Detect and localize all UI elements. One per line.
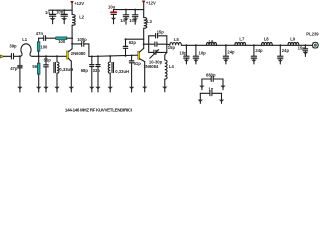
svg-text:1n: 1n: [45, 10, 50, 15]
node B: [38, 55, 40, 57]
svg-text:100: 100: [40, 44, 48, 49]
capacitor 10p second: [193, 45, 206, 59]
wire 100p down to interstage: [84, 44, 89, 57]
ground under 10p first: [184, 60, 189, 62]
choke L3: [144, 18, 153, 45]
ground under 10u: [111, 18, 116, 20]
inductor L1: [20, 37, 32, 56]
node M: [225, 44, 227, 46]
capacitor 10u electrolytic: [108, 4, 116, 17]
resistor 100 (horizontal, feedback): [56, 37, 67, 44]
node P: [304, 44, 306, 46]
node I: [131, 55, 133, 57]
ground right at 1n: [219, 100, 224, 102]
supply rail 1: [49, 9, 72, 11]
capacitor 47n: [36, 31, 46, 40]
svg-text:100: 100: [58, 39, 66, 44]
svg-text:L1: L1: [22, 37, 28, 42]
wire 39p to node A: [14, 55, 21, 57]
capacitor 15p top branch: [149, 29, 167, 38]
transistor Q1 2N6080: [67, 49, 87, 87]
svg-text:+12V: +12V: [146, 1, 156, 6]
node E: [91, 55, 93, 57]
node 62p tee: [125, 38, 127, 40]
svg-text:L5: L5: [174, 37, 180, 42]
ground under R56: [36, 87, 41, 89]
inductor L6: [207, 39, 217, 45]
svg-text:15p: 15p: [298, 46, 306, 51]
capacitor 24p first: [223, 45, 235, 59]
inductor L9: [288, 37, 299, 46]
choke L2: [72, 14, 85, 49]
input connector arrow: [0, 55, 4, 58]
ground under Q2 emitter: [142, 87, 147, 89]
ground under 10p second: [193, 60, 198, 62]
ground under 0.33uH interstage: [108, 87, 113, 89]
inductor 0.33uH (slug tuned, interstage): [108, 56, 129, 87]
transistor Q2 2N6084: [138, 44, 159, 86]
ground under Q1 emitter: [69, 87, 74, 89]
svg-text:10p: 10p: [199, 51, 207, 56]
svg-text:24p: 24p: [255, 48, 263, 53]
wire collector to 100p: [72, 43, 82, 45]
svg-text:PL239: PL239: [306, 31, 319, 36]
svg-text:56p: 56p: [44, 57, 52, 62]
svg-text:47n: 47n: [36, 31, 44, 36]
node J: [143, 43, 145, 45]
inductor L7: [235, 36, 246, 45]
svg-text:47p: 47p: [10, 66, 18, 71]
svg-text:L4: L4: [169, 64, 175, 69]
ground under 15p output: [303, 52, 308, 54]
capacitor 10n (rail 2): [129, 9, 138, 24]
svg-text:10n: 10n: [56, 10, 64, 15]
ground under 0.33uH input: [54, 87, 59, 89]
capacitor 51p: [129, 56, 141, 87]
ground left at 1n: [198, 100, 203, 102]
capacitor 1n (rail 2): [120, 9, 129, 23]
ground under 24p first: [223, 60, 228, 62]
connector PL239: [306, 31, 319, 48]
wire input to C 39p: [4, 55, 11, 57]
capacitor 39p: [9, 44, 17, 59]
svg-text:144-146 MHZ RF KUVVETLENDIRICI: 144-146 MHZ RF KUVVETLENDIRICI: [65, 108, 132, 113]
ground under 1n rail1: [50, 18, 56, 20]
svg-text:100p: 100p: [77, 37, 87, 42]
capacitor 10p first: [180, 45, 190, 59]
trimmer capacitor 10-30p: [149, 49, 167, 64]
capacitor 24p third: [278, 45, 290, 59]
capacitor 56p: [44, 56, 52, 87]
node collector feedback: [71, 37, 73, 39]
svg-text:680p: 680p: [206, 73, 216, 78]
node collector coupling: [71, 43, 73, 45]
capacitor 24p second: [251, 45, 263, 59]
ground under 51p: [129, 87, 134, 89]
capacitor 15p middle branch: [149, 42, 176, 50]
+12V supply 1: [71, 1, 85, 15]
capacitor 33p: [93, 56, 101, 87]
svg-text:L6: L6: [209, 39, 215, 44]
svg-text:15p: 15p: [157, 29, 165, 34]
node F: [97, 55, 99, 57]
svg-text:+12V: +12V: [74, 1, 84, 6]
svg-text:2N6084: 2N6084: [144, 64, 159, 69]
matching box right bar: [166, 36, 168, 53]
supply rail 2: [114, 9, 144, 11]
wire R100 to collector line: [67, 37, 72, 39]
filter wire: [181, 44, 312, 46]
capacitor 62p: [123, 39, 136, 56]
svg-text:L7: L7: [239, 36, 245, 41]
svg-text:L2: L2: [79, 14, 85, 19]
svg-text:15p: 15p: [168, 45, 176, 50]
node H: [125, 55, 127, 57]
ground under 1n rail2: [123, 18, 128, 20]
capacitor 100p: [77, 37, 87, 46]
svg-text:L8: L8: [264, 37, 270, 42]
svg-text:10p: 10p: [180, 51, 188, 56]
interstage wire: [89, 55, 138, 56]
node G: [109, 55, 111, 57]
capacitor 10n (rail 1): [56, 9, 67, 18]
capacitor 1n (rail 1): [45, 10, 56, 18]
svg-text:1n: 1n: [208, 86, 213, 91]
wire L1 to node B: [32, 55, 67, 57]
node N: [253, 44, 255, 46]
ground right at 680p: [220, 86, 225, 88]
node L: [195, 44, 197, 46]
capacitor 15p output: [298, 45, 308, 51]
svg-text:33p: 33p: [93, 68, 101, 73]
svg-text:10-30p: 10-30p: [149, 59, 163, 64]
ground under 10n rail2: [133, 18, 138, 20]
svg-text:L3: L3: [147, 19, 153, 24]
capacitor 68p: [81, 56, 94, 86]
svg-text:24p: 24p: [227, 49, 235, 54]
feedthrough capacitor 680p: [202, 73, 223, 86]
wire 62p to L3 line: [126, 38, 144, 40]
ground under 33p: [95, 87, 100, 89]
svg-text:2N6080: 2N6080: [71, 51, 86, 56]
feedthrough capacitor 1n: [200, 86, 221, 99]
svg-text:L9: L9: [290, 37, 296, 42]
node A: [19, 55, 21, 57]
svg-text:0,33uH: 0,33uH: [115, 69, 129, 74]
svg-text:39p: 39p: [9, 44, 17, 49]
svg-text:56: 56: [32, 64, 37, 69]
ground under 47p: [17, 87, 22, 89]
trimmer capacitor 47p: [10, 56, 22, 87]
ground under 10n rail1: [61, 18, 67, 20]
node O: [279, 44, 281, 46]
wire collector node Q2: [144, 43, 149, 45]
svg-text:68p: 68p: [81, 68, 89, 73]
ground left at 680p: [199, 86, 204, 88]
ground under 68p: [89, 87, 94, 89]
wire feedback node to 47n: [39, 37, 44, 39]
ground under 56p: [43, 87, 48, 89]
svg-text:51p: 51p: [134, 61, 142, 66]
node K: [185, 44, 187, 46]
inductor L8: [262, 37, 273, 46]
wire 47n to R100: [46, 37, 56, 39]
inductor 0.33uH (slug tuned, input): [54, 56, 73, 87]
inductor L4: [165, 52, 175, 86]
+12V supply 2: [142, 1, 156, 18]
ground under L4: [162, 87, 167, 89]
svg-text:24p: 24p: [282, 48, 290, 53]
node D: [56, 55, 58, 57]
ground under 24p second: [251, 60, 256, 62]
svg-text:10u: 10u: [108, 4, 116, 9]
inductor L5: [167, 37, 182, 45]
svg-text:62p: 62p: [129, 40, 137, 45]
node C: [45, 55, 47, 57]
ground under 24p third: [278, 60, 283, 62]
resistor 100 (vertical, base feedback): [37, 38, 48, 56]
resistor 56 (vertical): [32, 56, 40, 87]
matching box left bar: [148, 36, 150, 53]
